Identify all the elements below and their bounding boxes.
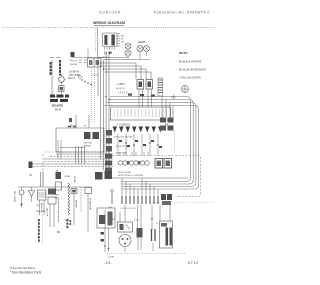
legend note text bbox=[179, 51, 206, 80]
terminal circle pair 3 bbox=[140, 161, 149, 165]
pin leads below wedges bbox=[118, 134, 158, 156]
chain A wire bbox=[52, 60, 61, 97]
defrost lead dotted wire bbox=[42, 215, 44, 245]
bottom wire label marks bbox=[101, 232, 110, 249]
svg-text:W BU R GN: W BU R GN bbox=[116, 153, 127, 155]
junction dots on bundle bbox=[97, 62, 109, 100]
switch body box bbox=[59, 86, 65, 92]
light switch box S2 bbox=[88, 58, 102, 67]
terminal circle pair 2 bbox=[129, 161, 138, 165]
svg-text:W SENSOR: W SENSOR bbox=[89, 198, 91, 210]
svg-text:MOTOR: MOTOR bbox=[84, 143, 93, 145]
lamp D bbox=[144, 46, 150, 52]
svg-text:W: W bbox=[121, 39, 123, 41]
svg-text:W BK: W BK bbox=[65, 176, 71, 178]
terminal mid marks bbox=[127, 161, 140, 165]
svg-text:NOTE:: NOTE: bbox=[179, 51, 188, 55]
heater chain column 1 bbox=[55, 172, 62, 222]
component stack right of heater bbox=[46, 189, 57, 228]
chain A top ticks bbox=[50, 57, 60, 59]
svg-text:BK W OR BU R Y GN W BK: BK W OR BU R Y GN W BK bbox=[118, 175, 144, 177]
lamp B bbox=[125, 50, 131, 56]
ground symbol legend bbox=[182, 86, 189, 93]
svg-text:Y-YELLOW GN-GRN: Y-YELLOW GN-GRN bbox=[179, 78, 201, 80]
compressor harness top label row bbox=[112, 175, 188, 178]
lamp A bbox=[125, 43, 131, 49]
compressor motor bbox=[119, 235, 131, 253]
pin row end rects bbox=[161, 194, 172, 205]
svg-text:BK-BLACK W-WHITE: BK-BLACK W-WHITE bbox=[179, 61, 202, 64]
connector row J1 bbox=[137, 80, 153, 108]
inverter drop wires to bus bbox=[58, 140, 85, 164]
control board box bbox=[111, 107, 171, 120]
lamp C bbox=[137, 46, 143, 52]
svg-text:W BK OR BU: W BK OR BU bbox=[118, 172, 132, 174]
connector row J1 labels bbox=[116, 83, 125, 90]
tick mark bbox=[29, 174, 32, 176]
relay blocks inside inverter bbox=[84, 132, 99, 148]
pin tick column bbox=[118, 34, 121, 47]
svg-text:ON BK W: ON BK W bbox=[69, 72, 80, 74]
wire x81 dashed bbox=[80, 187, 82, 212]
wire pair with label rects bbox=[137, 228, 143, 250]
harness label box bbox=[105, 171, 113, 179]
svg-text:FRZ LT: FRZ LT bbox=[70, 61, 78, 63]
revision code bbox=[188, 261, 198, 265]
lower-left horizontal wire bbox=[18, 186, 92, 188]
ground dotted line bottom bbox=[107, 253, 185, 255]
svg-text:0712: 0712 bbox=[188, 261, 198, 265]
terminal rect pair bbox=[155, 159, 172, 169]
svg-text:BK DEF: BK DEF bbox=[75, 200, 77, 209]
junction dot trail bbox=[79, 76, 92, 86]
P3 connector drop wires bbox=[162, 97, 173, 118]
heater chain column 3 labels bbox=[73, 176, 75, 183]
terminal hatch marks bbox=[120, 152, 148, 156]
svg-text:BU-BLUE OR-ORANGE R: BU-BLUE OR-ORANGE R bbox=[179, 69, 206, 72]
nested corner wires to connector row bbox=[98, 63, 151, 79]
wire label stack right of inverter bbox=[105, 130, 112, 173]
svg-text:BK W OR BU: BK W OR BU bbox=[116, 146, 129, 148]
terminal circle pair 1 bbox=[118, 161, 127, 165]
svg-text:BOARD: BOARD bbox=[52, 104, 64, 108]
heater labels bbox=[36, 203, 46, 213]
label block mid bbox=[68, 72, 81, 81]
title WIRING DIAGRAM bbox=[93, 21, 125, 25]
chain x74 component bbox=[71, 189, 77, 226]
terminal labels below bbox=[118, 172, 132, 174]
corner cross mark bbox=[171, 95, 176, 100]
bus label BK vertical bbox=[55, 170, 59, 174]
thermostat label vertical bbox=[13, 191, 15, 202]
tick labels mid bbox=[119, 140, 162, 148]
dotted separator rule bbox=[2, 27, 216, 29]
svg-text:WIRING DIAGRAM: WIRING DIAGRAM bbox=[93, 21, 125, 25]
footer functional parts note bbox=[10, 266, 42, 275]
chain x88 component bbox=[85, 188, 92, 233]
page number bbox=[104, 261, 112, 265]
dashed drop from P3 bbox=[174, 131, 176, 152]
left chain wire down bbox=[61, 82, 63, 95]
overload protector bbox=[160, 221, 173, 248]
svg-text:R S C: R S C bbox=[134, 220, 140, 222]
feed wire labels bbox=[70, 126, 87, 128]
lower-left wire pair down bbox=[41, 172, 44, 187]
svg-text:# Functional Parts: # Functional Parts bbox=[10, 266, 35, 270]
isolated pin symbol left bbox=[109, 189, 114, 209]
bus wire labels top bbox=[95, 172, 103, 180]
svg-text:COMP: COMP bbox=[108, 257, 115, 259]
wires down to compressor cluster bbox=[120, 205, 170, 230]
svg-text:* Non-Illustrated Parts: * Non-Illustrated Parts bbox=[10, 271, 42, 275]
wire stub to switch box bbox=[87, 48, 89, 58]
pin number labels bbox=[117, 123, 169, 127]
wedge row labels bbox=[114, 137, 133, 139]
drops from loop bottom to pin row bbox=[122, 178, 158, 196]
heater lead label marks bbox=[67, 219, 72, 228]
P3 connector cluster bbox=[160, 118, 174, 131]
svg-text:BK W: BK W bbox=[55, 109, 62, 112]
svg-text:SW LT: SW LT bbox=[68, 78, 75, 80]
wire label rows mid bbox=[116, 146, 129, 155]
compressor connector pin row bbox=[122, 196, 158, 204]
svg-text:BK W OR: BK W OR bbox=[116, 88, 125, 90]
left bus wires bbox=[30, 154, 113, 167]
label mark bottom bbox=[69, 118, 72, 122]
big label text rows left bbox=[50, 95, 69, 112]
svg-text:-19-: -19- bbox=[104, 261, 112, 265]
machine compartment dashed box top-left bbox=[43, 152, 201, 197]
defrost thermostat bbox=[19, 187, 24, 207]
lamp housing box U1 bbox=[103, 33, 118, 59]
svg-text:~1 4515: ~1 4515 bbox=[116, 83, 125, 86]
nested loop wires right side bbox=[104, 97, 199, 190]
bus wire label marks bbox=[128, 94, 155, 97]
publication number text bbox=[154, 11, 210, 15]
svg-text:1 4 5 1 5: 1 4 5 1 5 bbox=[118, 92, 128, 95]
svg-text:1 2 3 4 5 6 7 8 9: 1 2 3 4 5 6 7 8 9 bbox=[120, 208, 137, 210]
svg-text:BK W OR: BK W OR bbox=[40, 203, 42, 213]
bottom small text bbox=[108, 257, 115, 259]
heater chain column 2 bbox=[65, 176, 71, 222]
svg-text:3 BK 4 W 5 OR 6 BU: 3 BK 4 W 5 OR 6 BU bbox=[114, 137, 133, 139]
wire bundle verticals bbox=[98, 52, 109, 170]
svg-text:1 3 5M15 E: 1 3 5M15 E bbox=[117, 123, 131, 127]
wire dotted vertical top bbox=[96, 28, 104, 58]
inverter box bbox=[56, 127, 104, 153]
pin row labels bbox=[120, 208, 137, 210]
chain A label vertical bbox=[50, 62, 52, 75]
lamp label bbox=[138, 41, 146, 44]
wire horizontals top cluster bbox=[72, 52, 150, 60]
bottom wires left of compressor bbox=[105, 210, 109, 252]
svg-text:OR BK: OR BK bbox=[73, 176, 75, 183]
label column text bbox=[121, 36, 125, 44]
svg-text:OR HTR: OR HTR bbox=[46, 208, 48, 217]
svg-text:Publication No. 5995W79 0: Publication No. 5995W79 0 bbox=[154, 11, 210, 15]
model number text bbox=[99, 11, 121, 15]
tick rows right of mark bbox=[79, 60, 87, 63]
mid box with components bbox=[97, 208, 115, 228]
bottom left BK label bbox=[57, 231, 61, 234]
svg-text:OR: OR bbox=[121, 42, 125, 44]
svg-text:DEF TERM: DEF TERM bbox=[13, 191, 15, 202]
svg-text:BK: BK bbox=[57, 231, 61, 234]
thermistor triangle bbox=[29, 187, 35, 202]
svg-text:SW BK: SW BK bbox=[70, 64, 78, 66]
connector labels text bbox=[118, 92, 128, 95]
mark left of cluster bbox=[70, 52, 78, 66]
door switch SW1 bbox=[59, 74, 65, 82]
bus end label blob bbox=[29, 162, 33, 169]
inverter feed wires bbox=[76, 115, 89, 128]
start relay box bbox=[118, 222, 133, 232]
connector wedges row bbox=[113, 127, 163, 133]
svg-text:GCBC30A: GCBC30A bbox=[99, 11, 121, 15]
connector hatch bar bbox=[158, 78, 163, 96]
svg-text:FRZ: FRZ bbox=[55, 195, 60, 197]
defrost heater box bbox=[38, 190, 47, 215]
run capacitor bbox=[152, 229, 156, 251]
compressor terminal labels bbox=[112, 219, 160, 226]
dotted rows bottom right bbox=[150, 202, 214, 204]
wire switch to bundle bbox=[92, 67, 98, 122]
defrost lead vertical label bbox=[38, 219, 40, 242]
svg-text:LIGHT: LIGHT bbox=[138, 41, 146, 44]
door switch label vertical bbox=[59, 60, 61, 75]
svg-text:RELAY: RELAY bbox=[84, 145, 92, 148]
